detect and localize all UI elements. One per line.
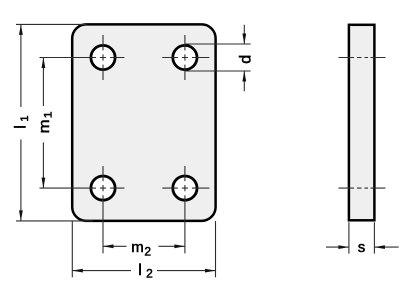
dimension l2 extension lines	[72, 221, 215, 277]
centerlines top-right hole	[162, 35, 209, 80]
dimension l1 line	[20, 24, 22, 221]
svg-text:l2: l2	[138, 262, 153, 281]
hole bottom-right	[173, 176, 197, 200]
hole top-left	[91, 45, 115, 69]
svg-text:m1: m1	[37, 111, 55, 133]
dimension l2 line	[72, 270, 215, 272]
hole top-right	[173, 45, 197, 69]
hole bottom-left	[91, 176, 115, 200]
dimension s extension lines	[349, 222, 375, 253]
svg-text:s: s	[358, 239, 366, 256]
dimension m1 line	[42, 58, 44, 189]
centerlines top-left hole (horizontal doubles as m1 extension)	[40, 35, 125, 80]
dimension s arrows (outside)	[326, 246, 399, 248]
svg-text:d: d	[238, 55, 255, 64]
centerlines bottom-left hole (vertical doubles as m2 extension)	[40, 166, 125, 253]
dimension m2 line	[103, 245, 185, 247]
dimension l1 extension lines	[16, 24, 93, 221]
dimension d extension lines (hole tangents)	[185, 44, 251, 71]
side view centerline lower	[339, 187, 386, 189]
svg-text:m2: m2	[131, 239, 151, 259]
plate front view	[72, 24, 215, 221]
side view plate	[349, 25, 375, 221]
svg-text:l1: l1	[12, 116, 31, 129]
side view centerline upper	[339, 57, 386, 59]
centerlines bottom-right hole	[162, 166, 209, 253]
dimension d arrows (outside)	[243, 25, 245, 92]
